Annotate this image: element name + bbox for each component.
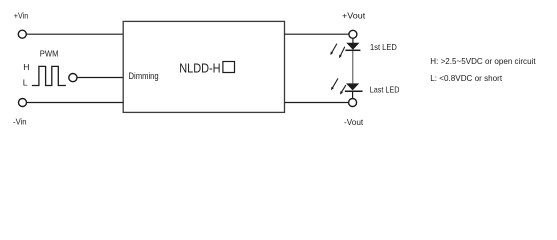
svg-text:+Vout: +Vout (342, 11, 366, 21)
wire +Vout to 1st LED (352, 39, 354, 44)
terminal +Vin (18, 30, 26, 38)
suffix box of part name (223, 62, 235, 73)
PWM waveform (32, 66, 66, 85)
svg-text:Dimming: Dimming (129, 71, 159, 81)
svg-text:Last LED: Last LED (370, 86, 400, 95)
svg-text:H: H (23, 62, 29, 72)
terminal dimming (69, 74, 77, 82)
wire last LED to -Vout terminal (352, 92, 354, 99)
wire +Vin to block (27, 33, 124, 35)
wire -Vin to block (27, 102, 124, 104)
svg-text:-Vout: -Vout (344, 117, 364, 127)
wire 1st LED to last LED (352, 51, 354, 83)
svg-text:L: <0.8VDC or short: L: <0.8VDC or short (430, 73, 502, 83)
svg-text:H: >2.5~5VDC or open circuit: H: >2.5~5VDC or open circuit (430, 56, 536, 66)
terminal -Vout (349, 99, 357, 107)
terminal -Vin (19, 99, 27, 107)
svg-text:L: L (23, 77, 28, 87)
svg-text:PWM: PWM (40, 49, 59, 59)
svg-text:-Vin: -Vin (13, 117, 27, 127)
svg-text:1st LED: 1st LED (370, 43, 397, 52)
wire block to -Vout (285, 102, 349, 104)
svg-text:+Vin: +Vin (14, 10, 29, 20)
LED D1 (1st LED) (330, 43, 360, 59)
LED D2 (last LED) (331, 78, 363, 94)
svg-text:NLDD-H: NLDD-H (179, 61, 220, 76)
wire block to +Vout (285, 33, 349, 35)
block NLDD-H driver (123, 21, 284, 112)
terminal +Vout (349, 30, 357, 38)
wire dimming to block (77, 77, 123, 79)
